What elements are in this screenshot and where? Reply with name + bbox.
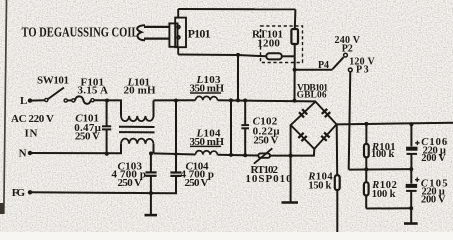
wire middle rail <box>349 168 412 171</box>
svg-text:10SP010: 10SP010 <box>245 173 292 185</box>
node degauss bottom junction <box>236 53 240 57</box>
node P3 <box>348 68 352 72</box>
resistor RT101 horizontal element <box>266 53 294 59</box>
switch SW101 <box>45 88 72 103</box>
thermistor RT101 vertical PTC element <box>291 29 298 56</box>
svg-text:150 k: 150 k <box>308 181 331 192</box>
node C101 top <box>105 99 109 103</box>
inductor L103 <box>196 96 218 100</box>
wire bridge bottom corner link <box>291 149 315 156</box>
node R101 top <box>364 122 368 126</box>
inductor L104 <box>196 151 218 155</box>
svg-text:3.15 A: 3.15 A <box>78 84 109 96</box>
connector P101 <box>169 9 186 55</box>
node mid junction b <box>236 98 240 102</box>
svg-text:AC 220 V: AC 220 V <box>11 113 54 125</box>
node FG junction <box>149 191 153 195</box>
node C104 cross <box>174 152 178 156</box>
svg-text:250 V: 250 V <box>253 135 278 147</box>
degaussing coil cable <box>137 25 170 40</box>
node N x231 <box>229 153 233 157</box>
thermistor RT102 <box>254 148 272 163</box>
svg-text:100 k: 100 k <box>372 189 396 200</box>
node P4 branch <box>293 68 297 72</box>
diode D1 marks <box>299 109 307 117</box>
resistor R102 <box>364 169 369 208</box>
bridge rectifier VDB101 <box>291 102 337 149</box>
capacitor C106 <box>406 124 417 169</box>
diode D4 marks <box>321 133 329 141</box>
svg-text:250 V: 250 V <box>75 130 100 142</box>
capacitor C104 <box>151 101 182 194</box>
wire DC+ line <box>337 123 453 125</box>
fuse F101 <box>72 96 94 103</box>
wire N line L104 to RT102 <box>218 154 259 157</box>
wire RT101 to main line <box>294 56 296 100</box>
svg-text:L: L <box>20 95 27 107</box>
svg-text:100 k: 100 k <box>371 149 394 160</box>
node C101 bottom <box>105 152 109 156</box>
svg-text:GBL06: GBL06 <box>297 91 327 101</box>
capacitor C103 <box>146 154 157 215</box>
node C106 top <box>409 122 413 126</box>
wire main line L101 to L103 <box>154 99 196 101</box>
wire P3 drop <box>349 72 351 170</box>
label plus C105 <box>415 178 419 182</box>
svg-text:SW101: SW101 <box>37 74 69 86</box>
wire degauss bottom <box>178 55 266 57</box>
scan left border <box>0 0 7 214</box>
svg-text:IN: IN <box>25 128 38 140</box>
wire P4 branch <box>295 69 333 71</box>
wire vertical x238 <box>237 55 239 101</box>
diode D2 marks <box>322 109 330 117</box>
wire L to switch <box>30 99 45 101</box>
thermistor RT101 dashed box <box>261 26 303 63</box>
wire main line fuse to L101 <box>94 99 122 101</box>
svg-text:TO DEGAUSSING COIL: TO DEGAUSSING COIL <box>22 25 139 40</box>
choke L101 <box>119 100 155 153</box>
node ground junction <box>409 206 413 210</box>
label plus C106 <box>415 141 419 145</box>
wire vertical x231 <box>230 100 232 154</box>
switch arm P4-P2 <box>333 57 344 69</box>
resistor R101 <box>364 124 369 169</box>
svg-text:P4: P4 <box>318 60 329 71</box>
svg-text:200 V: 200 V <box>421 153 446 164</box>
svg-text:250 V: 250 V <box>118 177 143 189</box>
svg-text:P2: P2 <box>342 44 353 55</box>
wire N line RT102 to bridge <box>270 155 291 157</box>
node C102 top <box>243 99 247 103</box>
node mid junction a <box>229 98 233 102</box>
node C102 bottom <box>243 153 247 157</box>
node P2 <box>344 53 348 57</box>
wire N line mid <box>154 153 196 154</box>
svg-text:FG: FG <box>12 187 26 199</box>
svg-text:250 V: 250 V <box>185 177 209 189</box>
svg-text:N: N <box>19 148 27 160</box>
capacitor C105 <box>406 169 417 208</box>
wire degauss top <box>178 8 295 10</box>
ground FG <box>145 214 158 217</box>
capacitor C101 <box>102 101 111 154</box>
node C103 top <box>149 152 153 156</box>
resistor R104 <box>335 124 340 232</box>
svg-text:P101: P101 <box>188 26 211 40</box>
node bridge N junction <box>289 154 293 158</box>
wire bottom rail <box>366 207 411 209</box>
node RT101 main junction <box>293 99 297 103</box>
wire bridge left corner down <box>290 125 292 202</box>
ground output <box>404 208 418 223</box>
diode D3 marks <box>298 133 306 141</box>
node C104 top <box>174 99 178 103</box>
svg-text:120 V: 120 V <box>349 56 375 67</box>
node C105 top <box>409 167 413 171</box>
wire N line left <box>30 152 122 154</box>
svg-text:20 mH: 20 mH <box>124 85 156 97</box>
wire main line L103 to bridge <box>218 100 316 101</box>
svg-text:1200: 1200 <box>257 37 280 49</box>
capacitor C102 <box>241 101 249 156</box>
svg-text:200 V: 200 V <box>421 194 446 205</box>
node R102 top <box>364 167 368 171</box>
wire degauss right drop <box>294 9 297 29</box>
wire FG line <box>30 191 151 194</box>
ground bridge <box>282 201 299 204</box>
